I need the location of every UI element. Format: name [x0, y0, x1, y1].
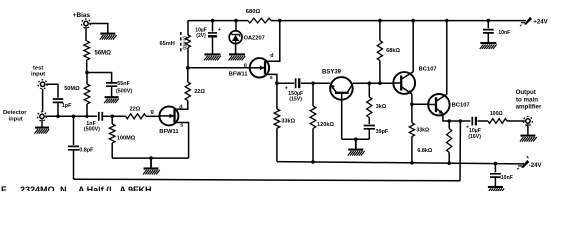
svg-text:0.8pF: 0.8pF — [79, 148, 94, 154]
node 120k junction — [311, 81, 315, 85]
svg-text:F: F — [1, 185, 7, 191]
svg-text:g: g — [244, 63, 247, 69]
terminal +24V supply — [520, 17, 548, 27]
wire BSY39 collector line — [353, 82, 394, 84]
wire -24V rail — [277, 162, 524, 164]
capacitor 1pF — [53, 99, 72, 109]
svg-text:22Ω: 22Ω — [194, 89, 205, 95]
wire 22Ω drain to node C — [187, 68, 189, 82]
wire stub to ground Q1 source — [150, 158, 152, 168]
svg-text:BFW11: BFW11 — [159, 129, 179, 135]
transistor Q4 BC107 — [393, 67, 436, 95]
resistor 3kΩ — [367, 83, 387, 117]
svg-text:22Ω: 22Ω — [130, 107, 141, 113]
wire R 3k to C 39pF — [368, 118, 370, 125]
terminal test input — [31, 66, 47, 89]
svg-text:+Bias: +Bias — [73, 12, 91, 19]
svg-text:A Half (L. A 9FKH: A Half (L. A 9FKH — [78, 185, 152, 191]
node 6.8k on -24V rail — [447, 161, 451, 165]
wire feedback line bottom — [74, 179, 461, 181]
capacitor 1nF 500V — [84, 112, 103, 133]
resistor 100MΩ — [109, 116, 135, 143]
svg-text:-24V: -24V — [529, 163, 542, 169]
value label (0.8Ω) rotated — [183, 36, 188, 50]
wire +Bias terminal down to R 56M — [85, 27, 87, 41]
svg-text:55nF: 55nF — [117, 81, 130, 87]
wire test input to C 1pF — [46, 84, 58, 97]
wire 10uF to 100Ω — [478, 120, 489, 122]
svg-text:(500V): (500V) — [116, 88, 132, 94]
wire detector line — [45, 115, 97, 117]
pin label g of Q1 — [151, 109, 154, 115]
pin label g of Q2 — [244, 63, 247, 69]
ground at output — [520, 136, 537, 142]
pin label d of Q1 — [179, 105, 182, 111]
wire feedback down — [459, 121, 461, 181]
svg-text:33kΩ: 33kΩ — [416, 127, 429, 133]
wire Q2 source — [265, 74, 277, 83]
capacitor 10µF 16V output — [466, 117, 481, 140]
svg-text:1pF: 1pF — [62, 103, 72, 109]
wire Q1 drain — [175, 101, 188, 110]
node 68k junction — [378, 81, 382, 85]
node OAZ207 junction on rail — [234, 19, 238, 23]
wire Q1 source line — [112, 157, 188, 159]
wire R 33k to -24V rail — [276, 128, 278, 161]
wire C 10nF top to ground — [487, 33, 489, 42]
ground at Detector input — [35, 128, 50, 134]
node 3k junction — [368, 81, 372, 85]
diode OAZ207 zener — [229, 31, 265, 44]
transistor Q2 BFW11 — [229, 58, 269, 77]
pin label s of Q1 — [180, 122, 183, 128]
node 10nF-2 on -24V rail — [494, 162, 498, 166]
wire C 1pF to detector line — [57, 103, 59, 117]
ground at BSY39 base — [348, 150, 365, 156]
wire R 100M to source line — [111, 143, 113, 158]
svg-text:39pF: 39pF — [376, 129, 389, 135]
svg-text:33kΩ: 33kΩ — [281, 119, 295, 125]
node 33k-2 on -24V rail — [410, 161, 414, 165]
wire emitter to BC107-2 base — [412, 103, 428, 105]
wire C 10uF to ground — [212, 38, 214, 54]
wire +24V rail right segment — [271, 20, 526, 22]
wire BC107-2 emitter to output line — [443, 114, 471, 121]
node 50M junction — [85, 115, 89, 119]
svg-text:+: + — [218, 27, 221, 33]
inductor 65mH — [160, 21, 191, 68]
svg-text:s: s — [270, 75, 273, 81]
svg-text:input: input — [9, 116, 23, 122]
node 1pF junction — [56, 115, 60, 119]
resistor 33kΩ Q2 source — [274, 83, 296, 128]
wire R 120k to -24V rail — [312, 128, 314, 162]
resistor 22Ω gate — [126, 107, 146, 119]
svg-text:BSY39: BSY39 — [322, 70, 342, 76]
node 68k on rail — [378, 19, 382, 23]
wire output terminal to ground — [527, 124, 529, 135]
resistor 33kΩ emitter — [409, 104, 429, 136]
svg-text:BC107: BC107 — [452, 103, 470, 109]
ground at +Bias — [100, 34, 117, 40]
svg-text:+24V: +24V — [533, 20, 547, 26]
ground at OAZ207 — [229, 54, 246, 60]
svg-text:OAZ207: OAZ207 — [244, 35, 265, 41]
resistor 50MΩ — [64, 73, 90, 105]
transistor BSY39 — [322, 70, 353, 100]
resistor 6.8kΩ — [417, 121, 451, 154]
wire C 55nF to ground — [111, 86, 113, 96]
wire 0.8pF branch down — [73, 116, 75, 145]
node BC107-2 collector on rail — [445, 19, 449, 23]
svg-text:(15V): (15V) — [289, 97, 302, 103]
svg-text:2324MΩ.: 2324MΩ. — [20, 185, 57, 191]
svg-text:to main: to main — [516, 96, 538, 103]
svg-text:(2V): (2V) — [196, 33, 206, 39]
wire Q2 source line to 150uF — [277, 82, 294, 84]
wire rail to OAZ207 — [235, 21, 237, 31]
svg-text:g: g — [151, 109, 154, 115]
wire rail to C 10nF top — [487, 21, 489, 29]
svg-text:120kΩ: 120kΩ — [317, 122, 334, 128]
node BC107-1 collector on rail — [411, 19, 415, 23]
node 120k on -24V rail — [311, 160, 315, 164]
svg-text:N..: N.. — [60, 185, 72, 191]
node emitter/base junction — [410, 103, 414, 107]
resistor 120kΩ — [310, 83, 334, 128]
terminal Detector input — [3, 110, 47, 122]
wire R 68k to rail — [379, 21, 381, 41]
svg-text:d: d — [270, 53, 273, 59]
svg-text:680Ω: 680Ω — [246, 9, 261, 15]
svg-text:BC107: BC107 — [419, 67, 437, 73]
wire Q2 drain to rail — [265, 21, 280, 62]
wire BSY39 base down — [341, 100, 343, 140]
node 6.8k junction — [447, 119, 451, 123]
wire C 39pF to base line — [368, 129, 370, 139]
svg-text:10nF: 10nF — [498, 30, 510, 36]
wire +Bias terminal to ground — [89, 24, 108, 34]
wire BSY39 base line horizontal — [342, 138, 370, 140]
svg-text:BFW11: BFW11 — [229, 72, 248, 78]
resistor 68kΩ — [377, 41, 400, 84]
svg-text:Detector: Detector — [3, 110, 27, 116]
terminal +Bias input — [73, 12, 91, 28]
wire +24V rail left segment — [188, 20, 248, 22]
svg-text:(0.8Ω): (0.8Ω) — [183, 36, 188, 50]
capacitor 10nF decoupling bottom — [490, 174, 513, 181]
wire rail to C 10uF — [212, 21, 214, 32]
node source-line ground junction — [149, 156, 153, 160]
wire R 50M to detector line — [86, 104, 88, 116]
wire rail to C 10nF bottom — [494, 164, 496, 173]
wire OAZ207 to ground — [235, 44, 237, 54]
pin label d of Q2 — [270, 53, 273, 59]
capacitor 55nF 500V — [106, 81, 132, 94]
node base-line ground junction — [354, 137, 358, 141]
svg-text:Output: Output — [516, 89, 536, 96]
wire R 6.8k to -24V rail — [448, 152, 450, 163]
node B junction 100M — [110, 115, 114, 119]
wire Q1 source — [175, 123, 189, 159]
wire 150uF to BSY39 emitter — [301, 82, 330, 84]
ground at 10uF — [204, 54, 221, 60]
node 0.8pF junction — [72, 115, 76, 119]
wire R 33k-2 to -24V rail — [411, 137, 413, 163]
transistor Q5 BC107 — [428, 94, 469, 115]
svg-text:6.8kΩ: 6.8kΩ — [417, 148, 432, 154]
svg-text:65mH: 65mH — [160, 41, 175, 47]
svg-text:100MΩ: 100MΩ — [117, 136, 136, 142]
capacitor 39pF — [364, 126, 389, 136]
svg-text:10nF: 10nF — [501, 175, 513, 181]
wire test input to detector input — [42, 89, 44, 112]
transistor Q1 BFW11 — [159, 106, 179, 135]
pin label s of Q2 — [270, 75, 273, 81]
ground at 10nF bottom — [487, 187, 504, 193]
capacitor 10µF 2V electrolytic — [195, 27, 220, 39]
node C junction 65mH/22Ω/gate — [186, 66, 190, 70]
ground at 55nF — [104, 97, 119, 103]
terminal Output — [516, 89, 542, 126]
resistor 100Ω — [488, 111, 507, 123]
wire stub to ground BSY39 — [355, 139, 357, 149]
node Q2 drain on rail — [278, 19, 282, 23]
capacitor 0.8pF feedback — [68, 146, 94, 153]
ground at Q1 source line — [143, 169, 160, 175]
wire 0.8pF to feedback line — [73, 150, 75, 179]
wire node A to C 55nF — [87, 73, 112, 83]
svg-text:56MΩ: 56MΩ — [95, 50, 112, 56]
wire 1nF to node B — [103, 115, 126, 117]
svg-text:3kΩ: 3kΩ — [376, 104, 387, 110]
resistor 56MΩ — [84, 41, 111, 60]
wire C 10nF bottom to ground — [494, 177, 496, 186]
svg-text:amplifier: amplifier — [516, 104, 542, 111]
svg-text:(16V): (16V) — [468, 134, 481, 140]
wire node C to Q2 gate — [188, 67, 250, 69]
node 10uF junction on rail — [211, 19, 215, 23]
wire 100Ω to output terminal — [507, 120, 525, 122]
node 33k junction — [275, 81, 279, 85]
wire BC107-1 collector to rail — [412, 21, 414, 72]
capacitor 150µF 15V electrolytic — [285, 78, 303, 102]
terminal -24V supply — [517, 156, 541, 169]
node feedback junction — [459, 119, 463, 123]
svg-text:68kΩ: 68kΩ — [386, 48, 400, 54]
node 10nF junction on rail — [487, 19, 491, 23]
ground at 10nF top — [480, 43, 497, 49]
svg-text:(500V): (500V) — [84, 127, 100, 133]
resistor 680Ω — [246, 9, 271, 23]
wire 22Ω to Q1 gate — [146, 115, 159, 117]
wire R 56M to node A — [86, 60, 88, 73]
caption text (clipped at bottom edge) — [1, 185, 152, 195]
svg-text:50MΩ: 50MΩ — [64, 86, 80, 92]
node A junction 56M/50M/55n — [85, 71, 89, 75]
wire BC107-2 collector to rail — [446, 21, 448, 95]
core line of 65mH (dashed) — [180, 32, 182, 52]
svg-text:100Ω: 100Ω — [490, 111, 503, 117]
svg-text:test: test — [33, 66, 43, 72]
capacitor 10nF decoupling top — [483, 30, 510, 37]
resistor 22Ω drain — [185, 82, 205, 101]
wire BC107-1 emitter down — [411, 94, 413, 104]
wire Detector terminal to ground — [41, 120, 43, 127]
svg-text:input: input — [31, 72, 45, 78]
